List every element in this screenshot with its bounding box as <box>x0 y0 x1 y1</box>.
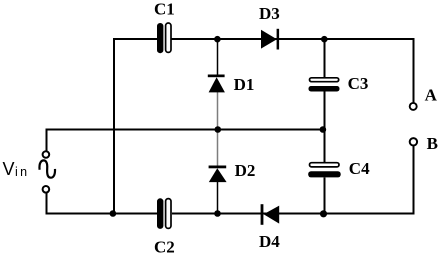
node junction bottom D column <box>214 210 221 217</box>
wire left vertical x=114 <box>113 38 115 215</box>
wire Vin top stub <box>46 129 48 152</box>
capacitor C4 <box>308 163 341 178</box>
node junction top D column <box>214 36 221 43</box>
node junction middle D column <box>215 126 222 133</box>
node junction top C column <box>321 36 328 43</box>
wire top left segment <box>114 38 158 40</box>
AC source Vin terminal top <box>43 151 50 158</box>
svg-text:D1: D1 <box>234 75 255 94</box>
wire bottom right segment <box>172 213 415 215</box>
node junction bottom C column <box>320 210 327 217</box>
terminal A <box>410 103 417 110</box>
wire C-column top (dot to C3) <box>324 39 326 78</box>
svg-text:D4: D4 <box>259 232 280 251</box>
svg-text:B: B <box>427 134 438 153</box>
svg-text:D2: D2 <box>235 161 256 180</box>
wire D-column middle to D2 (gray) <box>217 130 219 167</box>
AC source Vin terminal bottom <box>43 186 50 193</box>
wire C-column C3 to middle <box>324 91 326 130</box>
wire D-column D1 to middle (gray) <box>217 92 219 130</box>
capacitor C3 <box>309 78 340 92</box>
diode D4 <box>261 204 280 225</box>
terminal B <box>410 138 417 145</box>
diode D2 <box>209 166 227 183</box>
wire Vin bottom stub <box>46 193 48 215</box>
capacitor C1 <box>157 23 171 53</box>
diode D1 <box>208 75 225 93</box>
capacitor C2 <box>157 198 171 229</box>
wire D-column top (dot to D1) <box>217 39 219 76</box>
svg-text:C4: C4 <box>349 159 370 178</box>
svg-text:in: in <box>15 165 30 179</box>
svg-text:A: A <box>425 85 438 104</box>
wire B to bottom <box>413 146 415 214</box>
wire D-column D2 to bottom <box>217 182 219 214</box>
svg-text:C1: C1 <box>154 0 175 18</box>
wire top right of C1 <box>172 38 414 40</box>
node junction middle C column <box>320 126 327 133</box>
wire C-column C4 to bottom <box>324 178 326 214</box>
svg-text:C3: C3 <box>348 74 369 93</box>
AC source squiggle <box>39 160 55 177</box>
wire bottom left segment <box>46 213 158 215</box>
wire middle horizontal <box>46 129 325 131</box>
svg-text:V: V <box>3 159 15 179</box>
svg-text:D3: D3 <box>259 4 280 23</box>
svg-text:C2: C2 <box>154 237 175 253</box>
diode D3 <box>261 29 279 50</box>
wire right vertical to A <box>413 38 415 103</box>
wire C-column middle to C4 <box>324 130 326 164</box>
node junction bottom left <box>110 210 117 217</box>
